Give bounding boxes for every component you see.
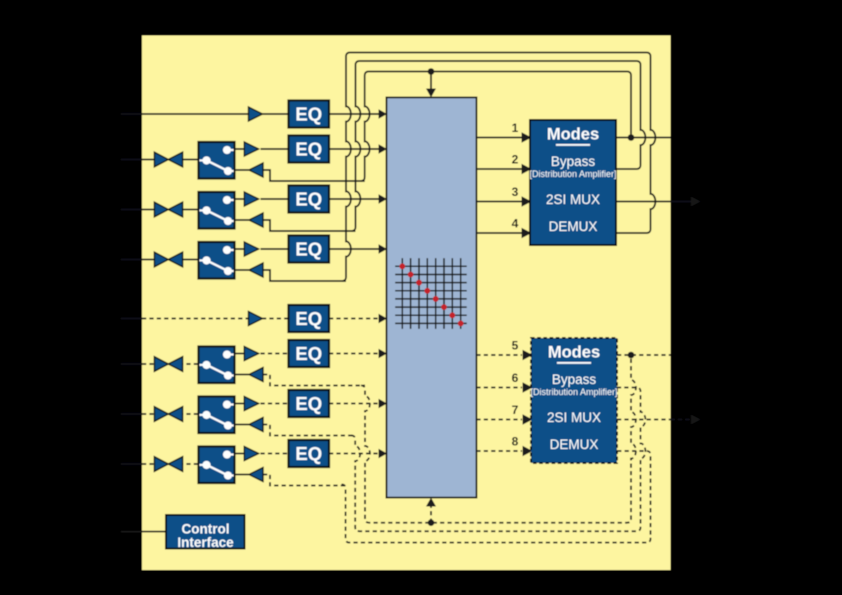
wire: Modes 1 main output row (616, 137, 671, 139)
wire: input 3 to switch S3 (142, 209, 199, 211)
input connector (bowtie) J4 (154, 252, 182, 267)
wire: 2SI MUX 1 output row (616, 201, 671, 203)
wire: feedback tap down into matrix top (430, 72, 432, 90)
wire: EQ4 to matrix input 4 (329, 248, 379, 250)
svg-text:DEMUX: DEMUX (549, 219, 598, 234)
input connector (bowtie) J2 (154, 152, 182, 167)
svg-text:[Distribution Amplifier]: [Distribution Amplifier] (529, 169, 616, 179)
svg-text:2SI MUX: 2SI MUX (546, 192, 600, 207)
wire: EQ8 to matrix input 8 (329, 453, 379, 455)
svg-text:EQ: EQ (295, 239, 322, 260)
wire: EQ7 to matrix input 7 (329, 403, 379, 405)
svg-text:EQ: EQ (295, 139, 322, 160)
wire: return feedback into buffer B4 (263, 270, 346, 281)
svg-text:8: 8 (512, 435, 519, 449)
svg-text:2SI MUX: 2SI MUX (547, 410, 601, 425)
Modes block U1 (Bypass / 2SI MUX / DEMUX) (529, 120, 616, 245)
wire: switch S6 to forward buffer (235, 353, 245, 355)
wire: switch S7 to forward buffer (235, 403, 245, 405)
crosspoint diagonal red dots (399, 263, 463, 326)
wire: input 2 to switch S2 (142, 159, 199, 161)
wire: matrix output 8 to Modes block 2 (dashed) (476, 450, 522, 452)
EQ equalizer block EQ8 (289, 440, 330, 467)
wire: input 2 stub in black margin (121, 159, 142, 161)
wire: input 1 stub in black margin (121, 113, 142, 115)
wire: matrix output 1 to Modes block 1 (476, 137, 522, 139)
wire: feedback tap up into matrix bottom (dashed) (430, 506, 432, 523)
wire: buffer to EQ2 (261, 148, 289, 150)
wire: switch S4 to forward buffer (235, 248, 245, 250)
svg-text:2: 2 (512, 153, 519, 167)
input connector (bowtie) J6 (154, 357, 182, 372)
svg-text:DEMUX: DEMUX (550, 437, 599, 452)
buffer amplifier A6 (244, 347, 258, 361)
svg-text:1: 1 (512, 121, 519, 135)
buffer amplifier A1 (249, 107, 263, 121)
switch (SPDT relay) S2 (199, 142, 235, 179)
wire: input 3 stub in black margin (121, 209, 142, 211)
svg-text:5: 5 (512, 339, 519, 353)
svg-text:EQ: EQ (295, 104, 322, 125)
switch (SPDT relay) S6 (199, 347, 235, 384)
Modes block U2 (Bypass / 2SI MUX / DEMUX) (530, 338, 617, 463)
wire: input 4 to switch S4 (142, 259, 199, 261)
return buffer amplifier B6 (235, 374, 250, 376)
wire: matrix output 5 to Modes block 2 (dashed) (476, 354, 522, 356)
return buffer amplifier B2 (235, 169, 250, 171)
wire: feedback loop input 7 return under matrix to Bypass out 2 (middle, dashed) (351, 388, 645, 532)
svg-text:6: 6 (512, 371, 519, 385)
wire: input 4 stub in black margin (121, 259, 142, 261)
wire: input 6 stub in black margin (121, 363, 142, 365)
wire: buffer to EQ7 (261, 403, 289, 405)
input connector (bowtie) J3 (154, 202, 182, 217)
wire: control interface stub in black margin (121, 531, 142, 533)
wire: feedback loop Bypass out 1 wrap over top to input 3 return (middle) (352, 61, 646, 231)
EQ equalizer block EQ7 (289, 390, 330, 417)
buffer amplifier A5 (249, 312, 263, 326)
wire: EQ6 to matrix input 6 (329, 353, 379, 355)
return buffer amplifier B8 (235, 474, 250, 476)
svg-text:Bypass: Bypass (552, 372, 597, 387)
svg-text:[Distribution Amplifier]: [Distribution Amplifier] (530, 387, 617, 397)
svg-text:EQ: EQ (295, 343, 322, 364)
wire: buffer to EQ8 (261, 453, 289, 455)
wire: return feedback into buffer B6 (263, 375, 365, 386)
switch (SPDT relay) S8 (199, 447, 235, 484)
wire: return feedback into buffer B7 (263, 425, 355, 436)
wire: EQ2 to matrix input 2 (329, 148, 379, 150)
wire: matrix output 3 to Modes block 1 (476, 201, 522, 203)
wire: 2SI MUX 1 output arrow in black margin (671, 201, 692, 203)
return buffer amplifier B3 (235, 219, 250, 221)
svg-text:Bypass: Bypass (551, 154, 596, 169)
wire: input 5 to buffer (142, 318, 249, 320)
wire: EQ5 to matrix input 5 (329, 318, 379, 320)
svg-text:Modes: Modes (548, 344, 600, 362)
wire: feedback loop DEMUX out 1 wrap over top to input 4 return (outer) (342, 53, 655, 282)
svg-text:Modes: Modes (547, 126, 599, 144)
node: junction dot Modes 2 output (628, 352, 635, 359)
crosspoint matrix (8x8 router) (387, 97, 477, 497)
EQ equalizer block EQ3 (289, 186, 330, 213)
svg-text:Interface: Interface (177, 535, 234, 550)
buffer amplifier A2 (244, 142, 258, 156)
wire: matrix output 6 to Modes block 2 (dashed) (476, 387, 522, 389)
Control Interface block (166, 515, 245, 550)
wire: buffer to EQ1 (262, 113, 289, 115)
wire: feedback loop input 6 return down under matrix to Modes out 5 (inner, dashed) (361, 355, 636, 523)
buffer amplifier A8 (244, 447, 258, 461)
switch (SPDT relay) S3 (199, 192, 235, 229)
wire: return feedback into buffer B8 (263, 475, 346, 486)
EQ equalizer block EQ4 (289, 236, 330, 263)
EQ equalizer block EQ2 (289, 136, 330, 163)
switch (SPDT relay) S4 (199, 242, 235, 279)
wire: EQ1 to matrix input 1 (329, 113, 379, 115)
wire: input 1 to buffer (142, 113, 249, 115)
svg-text:EQ: EQ (295, 443, 322, 464)
svg-text:4: 4 (512, 217, 519, 231)
wire: Modes 2 main output row (dashed) (617, 354, 671, 356)
wire: EQ3 to matrix input 3 (329, 198, 379, 200)
wire: switch S2 to forward buffer (235, 148, 245, 150)
wire: input 7 stub in black margin (121, 413, 142, 415)
wire: control line into Control Interface (142, 531, 166, 533)
buffer amplifier A3 (244, 192, 258, 206)
wire: switch S8 to forward buffer (235, 453, 245, 455)
wire: buffer to EQ3 (261, 198, 289, 200)
svg-text:7: 7 (512, 403, 519, 417)
wire: matrix output 4 to Modes block 1 (476, 232, 522, 234)
input connector (bowtie) J7 (154, 407, 182, 422)
return buffer amplifier B7 (235, 424, 250, 426)
wire: buffer to EQ5 (262, 318, 289, 320)
wire: return feedback into buffer B2 (263, 170, 365, 181)
svg-text:EQ: EQ (295, 393, 322, 414)
node: junction dot on bottom inner feedback line (428, 519, 435, 526)
wire: input 8 to switch S8 (142, 463, 199, 465)
wire: buffer to EQ4 (261, 248, 289, 250)
return buffer amplifier B4 (235, 269, 250, 271)
wire: input 7 to switch S7 (142, 413, 199, 415)
svg-text:EQ: EQ (295, 189, 322, 210)
wire: feedback loop input 8 return under matrix to DEMUX out 2 (outer, dashed) (342, 451, 651, 543)
wire: matrix output 7 to Modes block 2 (dashed) (476, 419, 522, 421)
wire: input 8 stub in black margin (121, 463, 142, 465)
wire: matrix output 2 to Modes block 1 (476, 168, 522, 170)
switch (SPDT relay) S7 (199, 397, 235, 434)
buffer amplifier A7 (244, 397, 258, 411)
yellow panel (142, 36, 671, 571)
wire: 2SI MUX 2 output arrow in black margin (671, 419, 692, 421)
EQ equalizer block EQ1 (289, 101, 330, 128)
EQ equalizer block EQ5 (289, 305, 330, 332)
node: junction dot Modes 1 output (628, 134, 635, 141)
wire: switch S3 to forward buffer (235, 198, 245, 200)
input connector (bowtie) J8 (154, 457, 182, 472)
buffer amplifier A4 (244, 242, 258, 256)
wire: 2SI MUX 2 output row (dashed) (617, 419, 671, 421)
wire: input 6 to switch S6 (142, 363, 199, 365)
svg-text:3: 3 (512, 185, 519, 199)
wire: feedback loop Modes out 1 wrap over top to input 2 return (inner) (361, 72, 631, 182)
node: junction dot on inner top feedback line (428, 68, 435, 75)
wire: buffer to EQ6 (261, 353, 289, 355)
wire: return feedback into buffer B3 (263, 220, 356, 231)
wire: input 5 stub in black margin (121, 318, 142, 320)
svg-text:EQ: EQ (295, 308, 322, 329)
EQ equalizer block EQ6 (289, 340, 330, 367)
